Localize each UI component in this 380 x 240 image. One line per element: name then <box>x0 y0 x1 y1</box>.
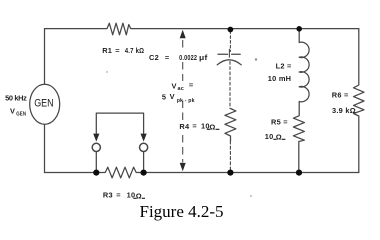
svg-text:Ω: Ω <box>209 122 215 131</box>
svg-text:R1: R1 <box>102 46 112 55</box>
svg-text:=: = <box>189 80 194 89</box>
svg-text:R4: R4 <box>179 122 190 131</box>
svg-text:R3: R3 <box>103 191 113 200</box>
svg-text:μf: μf <box>199 53 208 62</box>
svg-text:0.0022: 0.0022 <box>179 53 197 62</box>
svg-text:Ω: Ω <box>276 132 282 141</box>
svg-text:ac: ac <box>178 86 184 92</box>
svg-text:pk - pk: pk - pk <box>177 98 195 104</box>
svg-text:5: 5 <box>162 93 166 102</box>
svg-text:R6 =: R6 = <box>332 91 349 100</box>
svg-text:=: = <box>165 53 170 62</box>
svg-text:GEN: GEN <box>34 98 53 110</box>
svg-text:10: 10 <box>265 132 274 141</box>
svg-text:V: V <box>10 107 15 116</box>
svg-text:L2 =: L2 = <box>276 61 292 70</box>
svg-text:=: = <box>115 46 120 55</box>
svg-text:Ω: Ω <box>136 191 142 200</box>
svg-text:V: V <box>170 92 175 101</box>
svg-text:=: = <box>116 191 121 200</box>
svg-text:50 kHz: 50 kHz <box>5 94 27 103</box>
svg-text:10 mH: 10 mH <box>268 74 291 83</box>
svg-text:=: = <box>192 122 197 131</box>
svg-text:V: V <box>172 81 177 90</box>
svg-text:3.9 kΩ: 3.9 kΩ <box>332 106 356 115</box>
svg-text:C2: C2 <box>149 53 159 62</box>
svg-text:GEN: GEN <box>16 112 26 118</box>
svg-text:R5 =: R5 = <box>271 118 288 127</box>
svg-text:Figure 4.2-5: Figure 4.2-5 <box>140 202 224 221</box>
svg-text:4.7 kΩ: 4.7 kΩ <box>125 46 145 55</box>
